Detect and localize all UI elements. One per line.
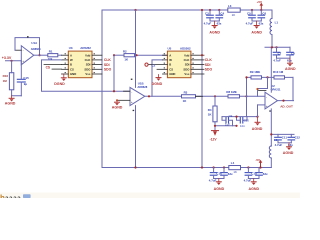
junction top cap C4 xyxy=(218,9,220,11)
svg-text:AGND: AGND xyxy=(283,151,294,155)
svg-text:CLK: CLK xyxy=(205,58,213,62)
wire U1A minus stub xyxy=(15,49,21,51)
resistor R4 xyxy=(213,106,217,122)
junction L1 bottom xyxy=(271,46,273,48)
junction R4 bottom xyxy=(214,125,216,127)
svg-text:4.7uF: 4.7uF xyxy=(275,143,283,147)
wire U1A output xyxy=(34,54,48,56)
svg-text:Vdd: Vdd xyxy=(85,53,91,57)
capacitor C11 xyxy=(275,136,282,138)
svg-text:C11: C11 xyxy=(282,135,288,139)
wire U1B output run xyxy=(145,95,247,97)
svg-text:CLK: CLK xyxy=(184,58,190,62)
node CS marker U5 xyxy=(145,63,148,66)
svg-text:R2: R2 xyxy=(123,49,127,53)
svg-text:-: - xyxy=(131,90,132,94)
wire U3 CS pin xyxy=(44,64,62,66)
wire U1A feedback loop xyxy=(15,38,40,56)
svg-text:R10 1M: R10 1M xyxy=(273,70,284,74)
junction C7 tap xyxy=(275,46,277,48)
wire C18 C19 bottoms xyxy=(248,178,259,180)
wire R16 top lead xyxy=(11,61,13,73)
svg-text:AGND: AGND xyxy=(214,187,225,191)
wire feedback to U5 wiper xyxy=(152,60,163,96)
svg-text:CLK: CLK xyxy=(85,58,91,62)
svg-text:C5: C5 xyxy=(247,12,251,16)
capacitor C16 xyxy=(210,172,217,174)
svg-text:C15: C15 xyxy=(23,76,29,80)
svg-text:-: - xyxy=(23,49,24,53)
wire U1B V- vertical xyxy=(135,106,137,168)
svg-text:U5: U5 xyxy=(168,46,172,50)
IC U5 right pin stubs xyxy=(191,55,204,74)
wire U2 plus vertical xyxy=(257,105,259,117)
svg-text:9p: 9p xyxy=(24,82,28,86)
resistor R3 xyxy=(182,95,196,98)
svg-text:C10: C10 xyxy=(244,118,250,122)
ground DGND U5 xyxy=(152,75,163,87)
junction bottom x202 xyxy=(201,166,203,168)
svg-text:1uF: 1uF xyxy=(225,122,230,126)
ground DGND U3 xyxy=(54,74,66,86)
junction U5 Vdd at x202 xyxy=(201,54,203,56)
svg-text:SDO: SDO xyxy=(84,67,91,71)
junction U1B plus terminal xyxy=(116,99,118,101)
wire segment R3 to x202 xyxy=(196,95,203,97)
svg-text:B: B xyxy=(169,63,171,67)
svg-text:+: + xyxy=(131,100,133,104)
wire C9 top node xyxy=(222,116,258,118)
junction bottom x135 xyxy=(134,166,136,168)
svg-text:+5V: +5V xyxy=(257,0,262,4)
wire +3.3V input xyxy=(6,60,22,62)
watermark logo xyxy=(0,193,300,203)
svg-text:W: W xyxy=(169,58,172,62)
pin number mark U1B V- xyxy=(133,110,135,111)
svg-text:Vdd: Vdd xyxy=(184,53,190,57)
op-amp U1B xyxy=(130,82,148,106)
ground AGND plus node xyxy=(252,117,263,132)
svg-text:R9 1ME: R9 1ME xyxy=(250,70,261,74)
junction minus node xyxy=(256,88,258,90)
svg-text:U3: U3 xyxy=(69,46,73,50)
wire U2 V- vertical xyxy=(270,109,272,134)
capacitor C4 xyxy=(216,14,223,16)
junction feedback mid xyxy=(266,76,268,78)
wire left vertical bus xyxy=(101,10,103,168)
wire C3 C4 bottoms xyxy=(210,20,219,22)
wire U2 plus stub xyxy=(258,104,266,106)
svg-text:-5V: -5V xyxy=(255,158,260,162)
svg-text:B: B xyxy=(70,63,72,67)
resistor R1 xyxy=(48,54,58,57)
junction C10 top xyxy=(235,116,237,118)
wire U2 V+ vertical xyxy=(270,47,272,92)
wire C7 C8 bottoms xyxy=(277,57,291,59)
svg-text:SDI: SDI xyxy=(86,63,91,67)
wire +5VA node xyxy=(265,46,290,48)
svg-text:DGND: DGND xyxy=(54,82,65,86)
junction plus node xyxy=(256,116,258,118)
resistor R8 xyxy=(228,95,240,98)
svg-text:A: A xyxy=(70,53,72,57)
svg-text:C3: C3 xyxy=(205,12,209,16)
junction R4 tap xyxy=(214,95,216,97)
ground AGND C11C12 xyxy=(283,143,294,155)
svg-text:C12: C12 xyxy=(295,135,300,139)
wire run to U2 minus xyxy=(247,95,266,97)
junction main run x246 xyxy=(245,95,247,97)
svg-text:-: - xyxy=(266,95,267,99)
ferrite bead L3 xyxy=(228,4,240,17)
ground AGND C16C17 xyxy=(214,179,225,191)
svg-text:CLK: CLK xyxy=(104,58,112,62)
svg-text:C4: C4 xyxy=(220,12,224,16)
svg-text:1K: 1K xyxy=(232,13,236,17)
wire top +5V rail xyxy=(102,9,272,11)
svg-text:A: A xyxy=(169,53,171,57)
capacitor C3 xyxy=(207,14,214,16)
ground AGND C3C4 xyxy=(209,21,220,35)
wire feedback mid to minus node xyxy=(258,77,268,96)
svg-text:AD_OUT: AD_OUT xyxy=(280,105,293,109)
svg-text:U1A: U1A xyxy=(31,41,38,45)
capacitor C9 xyxy=(222,114,233,127)
svg-text:L1: L1 xyxy=(275,21,279,25)
power -5V port bottom xyxy=(255,158,262,167)
wire U1B plus stub xyxy=(117,99,130,101)
capacitor C15 xyxy=(17,78,25,80)
svg-text:AD8628: AD8628 xyxy=(137,85,147,89)
junction bottom cap C17 xyxy=(223,166,225,168)
junction L2 top xyxy=(270,133,272,135)
svg-text:GND: GND xyxy=(70,72,76,76)
wire U2 balance stub xyxy=(259,90,267,92)
svg-text:SDI: SDI xyxy=(205,63,211,67)
capacitor C17 xyxy=(221,172,228,174)
junction top cap C3 xyxy=(209,9,211,11)
svg-text:10n: 10n xyxy=(240,124,245,128)
svg-text:SDO: SDO xyxy=(205,68,213,72)
svg-text:aaaa: aaaa xyxy=(5,195,21,198)
pin number mark U2 V- xyxy=(269,110,271,111)
svg-text:L4: L4 xyxy=(231,161,235,165)
junction top x202 xyxy=(201,9,203,11)
svg-text:Vss: Vss xyxy=(184,72,189,76)
wire R1 to U3 xyxy=(58,54,62,56)
junction C10 bottom xyxy=(235,125,237,127)
resistor R16 xyxy=(9,73,13,90)
power +5V port top xyxy=(257,0,264,10)
svg-text:AGND: AGND xyxy=(5,101,16,105)
svg-text:SDO: SDO xyxy=(104,68,112,72)
svg-text:AGND: AGND xyxy=(252,127,263,131)
capacitor C12 xyxy=(288,136,295,138)
svg-text:C7: C7 xyxy=(278,51,282,55)
junction feedback left xyxy=(245,76,247,78)
capacitor C10 xyxy=(237,117,250,129)
ground AGND C7C8 xyxy=(285,58,296,71)
wire bottom rail xyxy=(102,167,271,169)
ground AGND C18C19 xyxy=(249,179,260,191)
svg-text:W: W xyxy=(70,58,73,62)
svg-text:AGND: AGND xyxy=(112,106,123,110)
junction bottom cap C16 xyxy=(213,166,215,168)
wire feedback row xyxy=(247,76,294,78)
junction R2 right xyxy=(135,54,137,56)
wire C11 C12 bottoms xyxy=(278,142,291,144)
IC U5 left pin stubs xyxy=(148,55,167,74)
svg-text:4.7uF: 4.7uF xyxy=(246,21,254,25)
capacitor C5 xyxy=(249,14,256,16)
svg-text:C6: C6 xyxy=(262,12,266,16)
resistor R2 xyxy=(124,54,135,57)
junction top cap C5 xyxy=(251,9,253,11)
svg-text:63x: 63x xyxy=(217,21,222,25)
resistor R9 xyxy=(251,76,262,79)
svg-text:SDI: SDI xyxy=(104,63,110,67)
wire R16 bottom lead xyxy=(12,90,22,96)
wire feedback right vertical xyxy=(292,77,294,100)
op-amp U1A xyxy=(21,41,41,65)
junction U2 output xyxy=(282,100,284,102)
svg-text:SDO: SDO xyxy=(183,67,190,71)
junction x114 at U1B wire xyxy=(113,90,115,92)
junction U1B output xyxy=(148,95,150,97)
svg-text:-12V: -12V xyxy=(210,138,218,142)
capacitor C8 xyxy=(287,51,294,53)
IC U5 AD5262 xyxy=(167,46,191,77)
svg-text:AGND: AGND xyxy=(251,31,262,35)
junction R2 left xyxy=(113,54,115,56)
svg-text:1M: 1M xyxy=(3,79,8,83)
svg-text:+3.3V: +3.3V xyxy=(2,56,12,60)
svg-text:DGND: DGND xyxy=(152,82,163,86)
ferrite bead L4 xyxy=(229,161,241,174)
ground AGND C5C6 xyxy=(251,21,262,35)
wire U2 output xyxy=(278,100,294,102)
wire C5 C6 bottoms xyxy=(252,20,261,22)
svg-text:OPA211: OPA211 xyxy=(271,88,281,92)
wire U3 pin4 xyxy=(52,68,62,70)
junction top rail x135 xyxy=(134,9,136,11)
svg-text:R16: R16 xyxy=(3,74,9,78)
capacitor C18 xyxy=(245,172,252,174)
svg-text:63x: 63x xyxy=(259,21,264,25)
svg-text:AGND: AGND xyxy=(285,67,296,71)
svg-text:U1B: U1B xyxy=(138,82,144,86)
svg-text:C2: C2 xyxy=(152,64,156,68)
wire R2 right to U5 pin A xyxy=(135,54,168,56)
svg-text:R8 1ME: R8 1ME xyxy=(226,90,237,94)
svg-text:AD5262: AD5262 xyxy=(180,46,191,50)
svg-text:L3: L3 xyxy=(228,4,232,8)
wire U1B V+ vertical xyxy=(135,10,137,87)
resistor R10 xyxy=(274,76,285,79)
svg-text:Vss: Vss xyxy=(85,72,90,76)
junction bottom cap C18 xyxy=(247,166,249,168)
IC U3 left pin stubs xyxy=(62,55,69,74)
wire R2 left xyxy=(114,54,124,56)
wire U3 wiper W xyxy=(42,60,131,91)
capacitor C6 xyxy=(258,14,265,16)
wire C9 bottom node xyxy=(215,125,237,127)
svg-text:AGND: AGND xyxy=(249,187,260,191)
svg-text:+: + xyxy=(22,59,24,63)
junction U1A output xyxy=(38,54,40,56)
IC U3 right pin stubs xyxy=(92,55,102,74)
ground AGND under R16 xyxy=(5,96,16,106)
wire U1B minus stub xyxy=(124,90,131,92)
svg-text:C9: C9 xyxy=(229,114,233,118)
svg-text:SDI: SDI xyxy=(185,63,190,67)
svg-text:R1: R1 xyxy=(49,49,53,53)
svg-text:AD5262: AD5262 xyxy=(80,46,91,50)
svg-text:1K: 1K xyxy=(233,170,237,174)
svg-text:63x: 63x xyxy=(228,172,233,176)
svg-text:R3: R3 xyxy=(184,90,188,94)
svg-text:63x: 63x xyxy=(263,172,268,176)
svg-text:GND: GND xyxy=(169,72,175,76)
svg-text:C8: C8 xyxy=(291,51,295,55)
capacitor C7 xyxy=(273,51,280,53)
ground AGND U1B plus xyxy=(112,100,123,109)
op-amp U2 xyxy=(265,84,281,109)
svg-text:CS: CS xyxy=(70,67,74,71)
svg-text:CS: CS xyxy=(169,67,173,71)
power -12V port xyxy=(210,131,219,142)
wire x114 vertical xyxy=(113,55,115,91)
pin number mark U1B V+ xyxy=(131,79,133,80)
wire R4 top lead xyxy=(214,96,216,106)
junction top cap C6 xyxy=(260,9,262,11)
svg-text:CS: CS xyxy=(46,65,50,69)
capacitor C19 xyxy=(256,172,263,174)
svg-text:+: + xyxy=(266,104,268,108)
svg-text:4.7uF: 4.7uF xyxy=(204,21,212,25)
pin number mark U1A xyxy=(27,36,29,37)
IC U3 AD5262 xyxy=(68,46,92,77)
inductor L2 xyxy=(269,134,277,167)
junction bottom -5V xyxy=(259,166,261,168)
wire -5VA node xyxy=(271,133,294,135)
wire x246 vertical xyxy=(246,77,248,116)
wire mid vertical x202 xyxy=(201,10,203,168)
wire R4 bottom lead xyxy=(214,122,216,131)
svg-text:4.7uF: 4.7uF xyxy=(273,58,281,62)
wire C16 C17 bottoms xyxy=(214,178,224,180)
junction input node xyxy=(10,60,12,62)
inductor L1 xyxy=(270,10,278,47)
svg-text:AGND: AGND xyxy=(209,31,220,35)
